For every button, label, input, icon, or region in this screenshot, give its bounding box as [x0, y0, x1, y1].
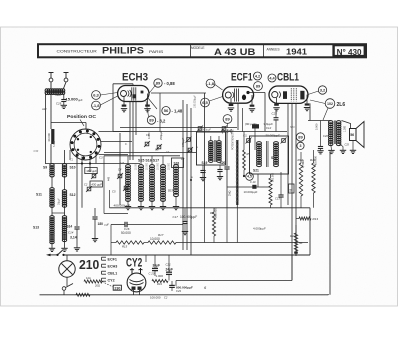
svg-text:R15: R15 — [122, 245, 128, 249]
svg-text:0,5MΩ: 0,5MΩ — [301, 160, 305, 168]
svg-text:C14: C14 — [68, 231, 74, 235]
svg-text:12A: 12A — [86, 276, 91, 280]
svg-text:10.000: 10.000 — [169, 162, 171, 170]
svg-text:C.10: C.10 — [250, 180, 256, 184]
svg-text:100.000μμF: 100.000μμF — [194, 95, 197, 108]
svg-text:89: 89 — [149, 117, 154, 122]
svg-text:μμF: μμF — [105, 224, 110, 227]
svg-text:C23: C23 — [176, 289, 181, 293]
svg-text:10.000: 10.000 — [136, 162, 138, 170]
svg-text:56: 56 — [164, 108, 169, 113]
svg-text:4,4: 4,4 — [269, 76, 275, 80]
svg-text:100.000μμF: 100.000μμF — [180, 215, 197, 219]
svg-text:A20: A20 — [55, 93, 62, 97]
svg-text:230: 230 — [114, 286, 120, 290]
svg-text:C13: C13 — [275, 197, 280, 201]
svg-text:30μF: 30μF — [153, 264, 160, 268]
svg-text:210: 210 — [79, 258, 99, 272]
svg-text:2MΩ: 2MΩ — [229, 191, 232, 196]
svg-text:ECF1: ECF1 — [231, 72, 253, 84]
svg-text:N° 430: N° 430 — [337, 47, 362, 57]
svg-text:89: 89 — [298, 134, 303, 139]
svg-text:-1,8: -1,8 — [207, 81, 215, 86]
svg-text:4.000μμF: 4.000μμF — [200, 128, 211, 132]
svg-text:10.000: 10.000 — [150, 237, 160, 241]
svg-text:R19: R19 — [157, 282, 162, 286]
svg-text:C2: C2 — [164, 296, 168, 300]
svg-text:- 3,2: - 3,2 — [157, 118, 166, 123]
svg-text:C7: C7 — [181, 157, 185, 161]
svg-text:CY2: CY2 — [108, 278, 115, 282]
svg-text:ANNEES: ANNEES — [267, 47, 280, 51]
svg-text:- 0,88: - 0,88 — [164, 81, 175, 86]
svg-text:89: 89 — [256, 83, 261, 88]
svg-text:μμF: μμF — [78, 98, 83, 102]
svg-text:C22: C22 — [272, 112, 278, 116]
svg-text:C1: C1 — [89, 169, 93, 173]
svg-text:C17: C17 — [173, 215, 179, 219]
svg-text:C21: C21 — [166, 262, 172, 266]
svg-text:102: 102 — [327, 102, 333, 106]
svg-text:2L6: 2L6 — [337, 102, 346, 108]
svg-text:C2: C2 — [84, 183, 88, 187]
svg-text:POTENTIOMETRE: POTENTIOMETRE — [232, 129, 235, 150]
svg-text:C6: C6 — [146, 133, 150, 137]
svg-text:CBL1: CBL1 — [108, 271, 118, 275]
svg-text:89: 89 — [156, 80, 161, 85]
svg-text:CONSTRUCTEUR: CONSTRUCTEUR — [57, 49, 98, 53]
svg-text:3,2: 3,2 — [320, 87, 326, 92]
svg-text:S13: S13 — [33, 226, 39, 230]
svg-text:C25: C25 — [345, 144, 350, 147]
svg-text:C.: C. — [125, 143, 128, 146]
svg-text:1941: 1941 — [286, 46, 307, 56]
svg-text:180: 180 — [98, 222, 104, 226]
svg-text:C30: C30 — [34, 150, 39, 153]
svg-text:400.000μμF: 400.000μμF — [114, 203, 131, 207]
svg-text:30.000μμF: 30.000μμF — [266, 133, 281, 137]
svg-text:15.000: 15.000 — [66, 97, 79, 102]
svg-text:S23: S23 — [290, 125, 295, 129]
svg-text:10.000μμF: 10.000μμF — [244, 190, 258, 194]
svg-text:20Ω: 20Ω — [95, 284, 100, 288]
svg-text:S12: S12 — [70, 193, 76, 197]
svg-text:30μμF: 30μμF — [58, 198, 61, 205]
svg-text:1.000: 1.000 — [344, 125, 347, 132]
svg-text:R8: R8 — [210, 211, 214, 215]
svg-text:S17: S17 — [168, 189, 174, 193]
svg-text:S22: S22 — [271, 156, 277, 160]
svg-text:C8: C8 — [155, 148, 159, 152]
svg-text:3,14: 3,14 — [70, 236, 77, 240]
svg-text:R13: R13 — [313, 217, 319, 221]
svg-text:- 1,48: - 1,48 — [172, 109, 183, 114]
svg-text:30.000: 30.000 — [47, 133, 51, 142]
svg-text:S20: S20 — [220, 161, 226, 165]
svg-text:C12: C12 — [266, 126, 272, 130]
svg-text:430 μμF: 430 μμF — [91, 183, 102, 187]
svg-text:Position OC: Position OC — [67, 114, 97, 120]
svg-text:100.000: 100.000 — [150, 296, 161, 300]
svg-text:-1,8: -1,8 — [93, 103, 101, 108]
svg-text:S11: S11 — [36, 193, 42, 197]
svg-text:10.000: 10.000 — [147, 162, 149, 170]
svg-text:3: 3 — [300, 144, 302, 148]
svg-text:PHILIPS: PHILIPS — [102, 46, 144, 56]
svg-text:S14: S14 — [67, 225, 73, 229]
svg-text:5.000: 5.000 — [53, 140, 56, 147]
svg-text:5.000: 5.000 — [315, 123, 319, 130]
svg-text:3,9μμF: 3,9μμF — [264, 122, 274, 126]
svg-text:445: 445 — [108, 176, 111, 181]
svg-text:C 20: C 20 — [149, 271, 155, 275]
svg-text:1.000: 1.000 — [156, 274, 164, 278]
svg-text:4.000μμF: 4.000μμF — [253, 227, 266, 231]
svg-text:MODELE: MODELE — [191, 46, 204, 50]
svg-text:S21: S21 — [253, 169, 259, 173]
svg-text:6,5: 6,5 — [202, 100, 208, 105]
svg-text:CBL1: CBL1 — [277, 72, 299, 84]
svg-text:ECH3: ECH3 — [108, 264, 118, 268]
svg-text:C5: C5 — [112, 190, 116, 194]
svg-text:500.000: 500.000 — [272, 172, 275, 182]
svg-text:4,5: 4,5 — [247, 175, 252, 179]
svg-text:50.000: 50.000 — [121, 231, 131, 235]
svg-text:R5: R5 — [247, 152, 251, 156]
svg-text:C3: C3 — [99, 156, 103, 160]
svg-text:C4: C4 — [118, 168, 122, 172]
svg-text:10.000: 10.000 — [158, 162, 160, 170]
svg-text:PARIS: PARIS — [149, 50, 164, 54]
svg-text:A 43 UB: A 43 UB — [214, 47, 255, 57]
svg-text:C26: C26 — [323, 134, 328, 138]
svg-text:515: 515 — [120, 162, 125, 165]
svg-text:56: 56 — [350, 133, 354, 137]
svg-text:CY2: CY2 — [126, 257, 142, 269]
svg-text:A22: A22 — [41, 107, 47, 111]
svg-text:89: 89 — [225, 116, 230, 121]
svg-text:ECF1: ECF1 — [108, 257, 117, 261]
svg-text:R14: R14 — [290, 234, 296, 238]
svg-text:ECH3: ECH3 — [122, 71, 148, 83]
svg-text:50: 50 — [299, 241, 303, 245]
svg-text:400.000: 400.000 — [313, 155, 317, 166]
svg-text:4,2: 4,2 — [255, 74, 260, 78]
svg-text:6,3: 6,3 — [93, 92, 99, 97]
svg-text:S9: S9 — [43, 166, 47, 170]
svg-text:S10: S10 — [70, 166, 76, 170]
svg-text:S18: S18 — [174, 162, 180, 166]
svg-text:800.000μμF: 800.000μμF — [176, 285, 193, 289]
